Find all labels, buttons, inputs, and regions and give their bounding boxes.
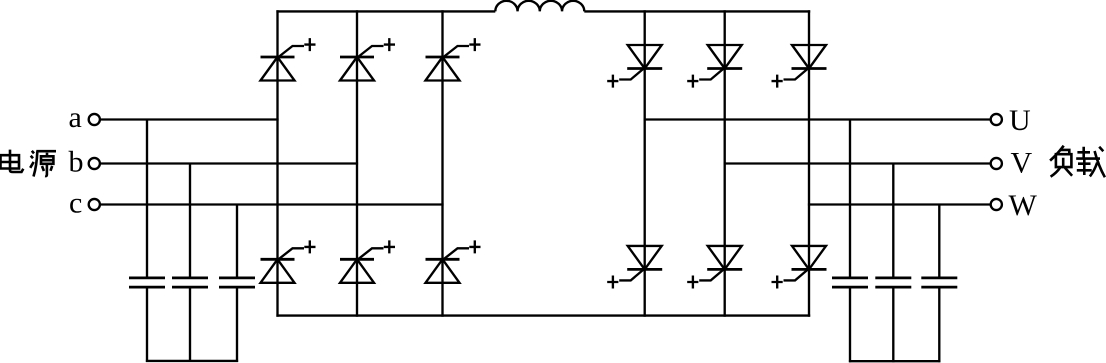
wire top DC bus right segment	[584, 10, 810, 12]
thyristor V11 (inverter top, phase W)	[772, 45, 827, 88]
wire C1 lower lead	[146, 288, 148, 362]
wire C5 lower lead	[892, 288, 894, 362]
thyristor V8 (inverter bottom, phase U)	[607, 246, 662, 289]
wire C3 lower lead	[236, 288, 238, 362]
terminal W circle	[991, 199, 1002, 210]
wire filter column W	[938, 205, 940, 277]
wire rectifier leg 3	[441, 10, 443, 316]
wire output U	[644, 118, 991, 120]
capacitor C6	[921, 278, 957, 287]
wire bottom DC bus	[276, 314, 810, 316]
wire phase b	[101, 162, 359, 164]
wire filter column c	[236, 205, 238, 277]
thyristor V12 (inverter bottom, phase W)	[772, 246, 827, 289]
capacitor C2	[172, 278, 208, 287]
wire filter column a	[146, 120, 148, 277]
wire rectifier leg 2	[356, 10, 358, 316]
terminal a circle	[89, 114, 100, 125]
svg-text:a: a	[69, 101, 82, 134]
capacitor C5	[875, 278, 911, 287]
capacitor C3	[219, 278, 255, 287]
thyristor V6 (rectifier bottom, phase b)	[340, 240, 395, 282]
wire output V	[724, 162, 991, 164]
capacitor C4	[832, 278, 868, 287]
wire C4 lower lead	[849, 288, 851, 362]
thyristor V7 (inverter top, phase U)	[607, 45, 662, 88]
wire inverter leg 1	[644, 10, 646, 316]
wire right capacitor bottom bus	[849, 360, 941, 362]
terminal c circle	[89, 199, 100, 210]
wire filter column U	[849, 120, 851, 277]
svg-text:c: c	[69, 187, 82, 220]
thyristor V3 (rectifier top, phase b)	[340, 38, 395, 80]
wire output W	[808, 203, 990, 205]
terminal b circle	[89, 158, 100, 169]
thyristor V10 (inverter bottom, phase V)	[687, 246, 742, 289]
wire phase a	[101, 118, 279, 120]
inductor L (DC link choke)	[495, 1, 584, 12]
svg-text:W: W	[1009, 189, 1038, 222]
terminal V circle	[991, 158, 1002, 169]
wire top DC bus left segment	[276, 10, 495, 12]
label 电源 (AC source)	[1, 150, 57, 177]
wire C6 lower lead	[938, 288, 940, 362]
wire filter column V	[892, 164, 894, 277]
wire phase c	[101, 203, 444, 205]
thyristor V1 (rectifier top, phase a)	[261, 38, 316, 80]
label 负载 (load)	[1050, 146, 1105, 178]
wire left capacitor bottom bus	[146, 360, 238, 362]
svg-text:b: b	[69, 145, 84, 178]
svg-text:V: V	[1011, 146, 1033, 179]
wire rectifier leg 1	[276, 10, 278, 316]
wire C2 lower lead	[189, 288, 191, 362]
wire inverter leg 3	[808, 10, 810, 316]
thyristor V9 (inverter top, phase V)	[687, 45, 742, 88]
capacitor C1	[129, 278, 165, 287]
svg-text:U: U	[1009, 104, 1031, 137]
thyristor V5 (rectifier top, phase c)	[426, 38, 481, 80]
terminal U circle	[991, 114, 1002, 125]
thyristor V4 (rectifier bottom, phase a)	[261, 240, 316, 282]
thyristor V2 (rectifier bottom, phase c)	[426, 240, 481, 282]
wire filter column b	[189, 164, 191, 277]
wire inverter leg 2	[724, 10, 726, 316]
